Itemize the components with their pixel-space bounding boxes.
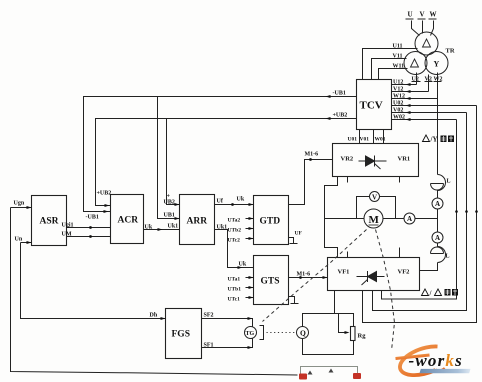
svg-text:A: A	[407, 215, 412, 223]
svg-text:Uk1: Uk1	[168, 224, 179, 230]
svg-text:UM: UM	[62, 232, 72, 238]
svg-text:UTb2: UTb2	[228, 228, 242, 234]
svg-text:/Y: /Y	[430, 136, 438, 144]
svg-text:VR2: VR2	[341, 156, 354, 163]
svg-text:V: V	[420, 11, 425, 19]
svg-text:-works: -works	[409, 351, 463, 370]
svg-text:+UB2: +UB2	[333, 113, 348, 119]
svg-text:Dh: Dh	[150, 313, 158, 319]
svg-text:Uk: Uk	[239, 262, 247, 268]
svg-text:ACR: ACR	[118, 216, 139, 226]
svg-text:+UB2: +UB2	[97, 191, 112, 197]
svg-text:U: U	[408, 11, 413, 19]
svg-text:Rg: Rg	[358, 333, 367, 340]
svg-text:U12: U12	[393, 80, 403, 86]
svg-text:ARR: ARR	[187, 217, 208, 227]
svg-text:SF2: SF2	[204, 313, 214, 319]
svg-text:SF1: SF1	[204, 343, 214, 349]
svg-text:V02: V02	[393, 108, 403, 114]
svg-text:UTc1: UTc1	[228, 297, 241, 303]
svg-text:U01: U01	[348, 137, 358, 143]
svg-text:Un: Un	[15, 237, 23, 243]
svg-text:L: L	[447, 179, 451, 185]
svg-text:GTD: GTD	[260, 217, 281, 227]
svg-text:Uk: Uk	[145, 225, 153, 231]
svg-text:ASR: ASR	[40, 217, 59, 227]
svg-text:V12: V12	[393, 87, 403, 93]
svg-text:U02: U02	[393, 101, 403, 107]
svg-text:Uf: Uf	[217, 199, 224, 205]
svg-text:Uk: Uk	[237, 197, 245, 203]
svg-text:Ugn: Ugn	[14, 201, 25, 207]
svg-text:M1-6: M1-6	[297, 272, 311, 278]
svg-text:A: A	[435, 234, 440, 242]
svg-text:UTb1: UTb1	[228, 287, 242, 293]
svg-text:M1-6: M1-6	[305, 152, 319, 158]
svg-text:Ugi1: Ugi1	[62, 223, 74, 229]
svg-text:W: W	[430, 11, 437, 19]
svg-text:TCV: TCV	[360, 100, 383, 112]
svg-text:Q: Q	[300, 329, 306, 338]
svg-text:TG: TG	[246, 331, 255, 337]
svg-text:UTc2: UTc2	[228, 238, 241, 244]
svg-text:V2: V2	[425, 77, 432, 83]
svg-text:/: /	[429, 290, 433, 298]
svg-text:W12: W12	[393, 94, 405, 100]
svg-text:Uk1: Uk1	[217, 225, 228, 231]
svg-text:A: A	[435, 200, 440, 208]
svg-text:V11: V11	[393, 54, 403, 60]
svg-text:W2: W2	[434, 77, 443, 83]
svg-text:UTa2: UTa2	[228, 218, 241, 224]
svg-text:W02: W02	[393, 115, 405, 121]
svg-text:W11: W11	[393, 64, 405, 70]
svg-text:V: V	[372, 194, 377, 202]
svg-text:W01: W01	[375, 137, 386, 143]
svg-text:FGS: FGS	[172, 330, 190, 340]
svg-text:UB1: UB1	[164, 213, 175, 219]
svg-text:VF2: VF2	[398, 269, 410, 276]
svg-text:Y: Y	[434, 60, 440, 69]
svg-text:TR: TR	[446, 48, 455, 55]
svg-text:V01: V01	[360, 137, 370, 143]
svg-text:L: L	[446, 254, 450, 260]
svg-text:UF: UF	[295, 231, 303, 237]
svg-text:U2: U2	[412, 77, 419, 83]
svg-text:UB2: UB2	[164, 200, 175, 206]
svg-text:-UB1: -UB1	[86, 215, 99, 221]
svg-text:U11: U11	[393, 44, 403, 50]
svg-text:UTa1: UTa1	[228, 277, 241, 283]
svg-text:VF1: VF1	[338, 269, 350, 276]
svg-text:GTS: GTS	[261, 277, 280, 287]
svg-text:-UB1: -UB1	[333, 91, 346, 97]
svg-text:VR1: VR1	[398, 156, 411, 163]
svg-text:M: M	[369, 214, 380, 226]
